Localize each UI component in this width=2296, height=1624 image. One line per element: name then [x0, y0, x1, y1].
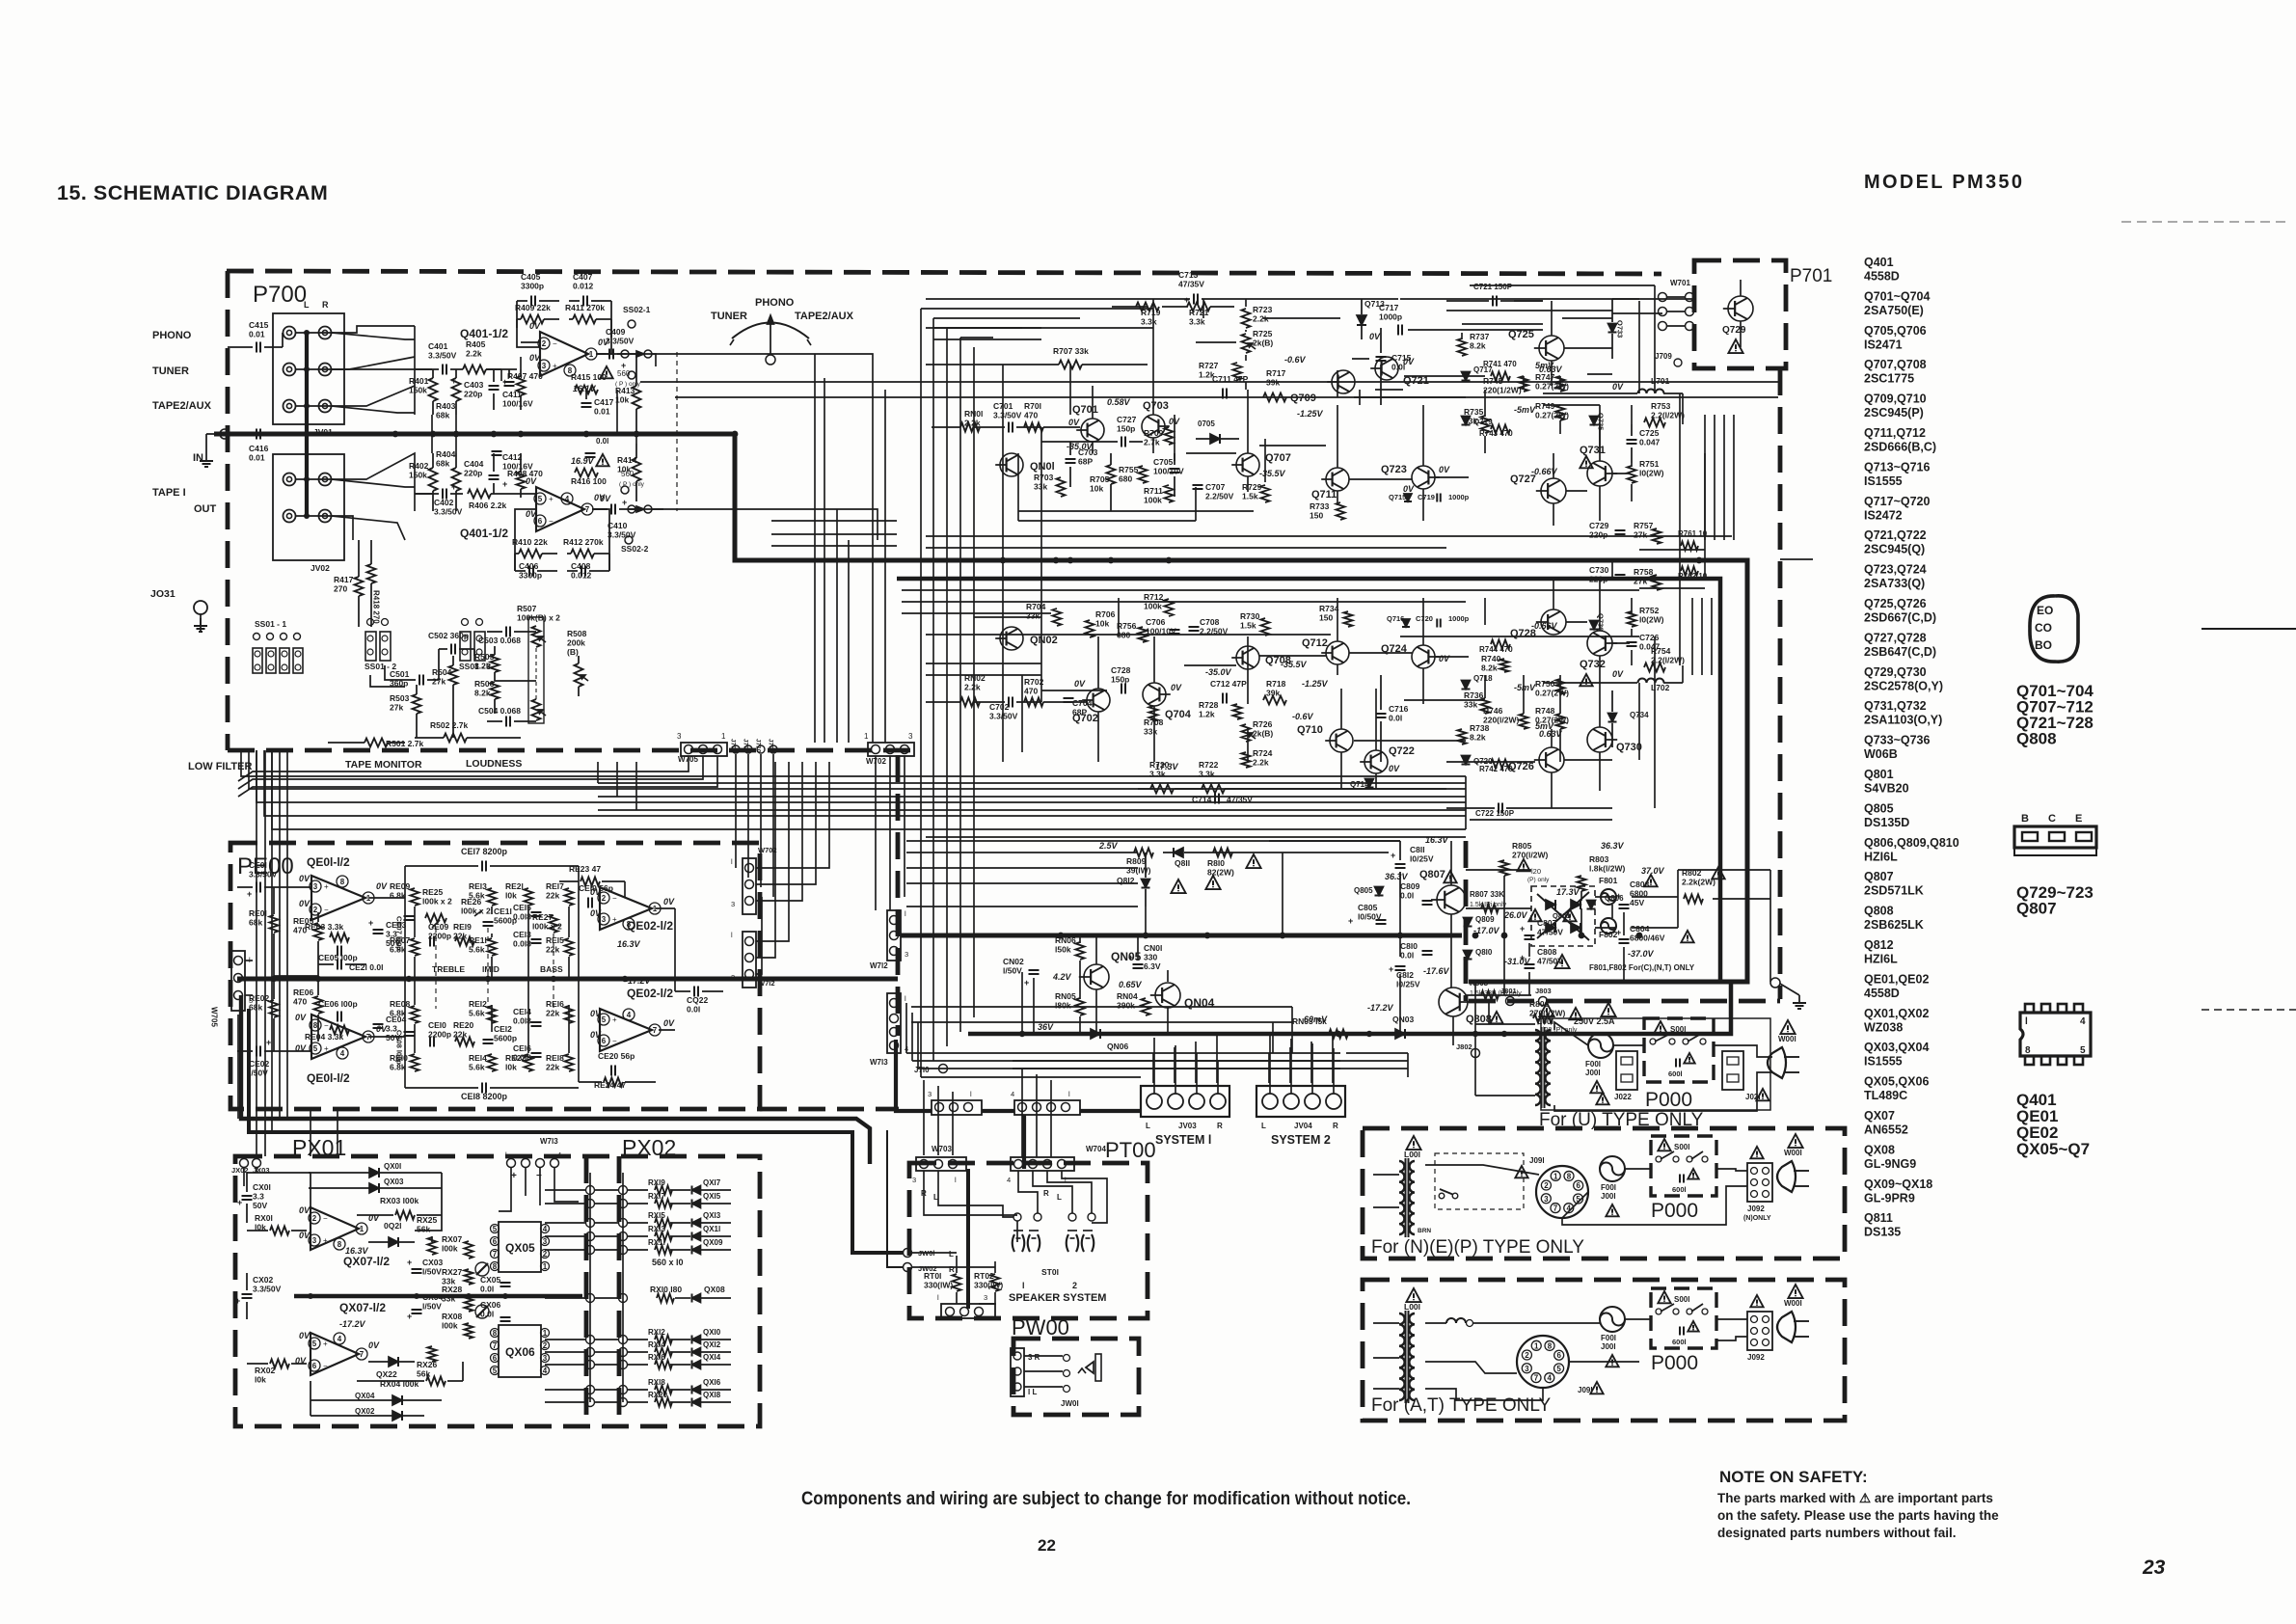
svg-text:R724: R724	[1253, 748, 1273, 758]
transistor Q707	[1231, 452, 1291, 478]
svg-text:Q717~Q720: Q717~Q720	[1864, 495, 1931, 508]
svg-text:0V: 0V	[368, 1340, 380, 1350]
svg-text:REl8: REl8	[546, 1053, 564, 1063]
svg-text:1000p: 1000p	[1448, 493, 1470, 501]
svg-text:QX03,QX04: QX03,QX04	[1864, 1041, 1929, 1054]
svg-text:8: 8	[493, 1329, 498, 1338]
svg-text:1: 1	[589, 350, 594, 359]
capacitor C704 68P	[1064, 698, 1093, 717]
svg-text:+: +	[235, 1296, 240, 1306]
resistor RE21 10k	[505, 881, 533, 906]
transistor Q727	[1510, 467, 1566, 503]
svg-text:RE1l: RE1l	[469, 935, 487, 945]
resistor R701 470	[1024, 401, 1080, 432]
svg-text:2: 2	[312, 1214, 317, 1223]
svg-text:7: 7	[360, 1350, 365, 1359]
wire thick connector row link	[896, 1040, 1141, 1169]
svg-text:TREBLE: TREBLE	[432, 964, 465, 974]
svg-text:2.5V: 2.5V	[1098, 841, 1119, 851]
svg-text:QN03: QN03	[1392, 1015, 1414, 1024]
svg-text:3: 3	[912, 1176, 916, 1184]
part list entry Q711,Q712 2SD666(B,C)	[1864, 426, 1936, 454]
svg-text:6: 6	[493, 1354, 498, 1363]
capacitor C401 3.3/50V	[415, 341, 463, 386]
resistor RE11 5.6k	[469, 935, 497, 956]
resistor R719 3.3k	[1136, 303, 1161, 327]
resistor R704 33k	[1026, 602, 1062, 626]
capacitor C411 100/16V	[502, 369, 533, 409]
svg-text:C725: C725	[1639, 428, 1660, 438]
pcb block For A T dashed border	[1363, 1280, 1845, 1421]
svg-text:PHONO: PHONO	[755, 297, 795, 309]
connector mid row right 4pin	[1011, 1090, 1080, 1115]
transistor QN01	[995, 453, 1054, 476]
capacitor C809 0.01	[1400, 881, 1433, 905]
svg-text:-31.0V: -31.0V	[1504, 957, 1531, 966]
transformer L001 AT type	[1399, 1288, 1421, 1403]
resistor RE18 22k	[546, 1053, 574, 1072]
resistor R717 39k	[1263, 368, 1286, 402]
resistor R802 2.2k(2W)	[1682, 867, 1725, 904]
svg-text:+: +	[612, 915, 617, 924]
capacitor CE08 100p	[395, 1030, 415, 1065]
svg-text:QXl3: QXl3	[703, 1211, 721, 1220]
svg-text:3: 3	[1544, 1195, 1549, 1204]
svg-text:C712 47P: C712 47P	[1210, 679, 1247, 689]
svg-text:For (U) TYPE ONLY: For (U) TYPE ONLY	[1539, 1110, 1704, 1130]
part group list Q401 column	[2016, 1091, 2090, 1158]
svg-text:-0.6V: -0.6V	[1284, 355, 1307, 365]
svg-text:l0(2W): l0(2W)	[1639, 469, 1664, 478]
dashed gang lines tone pots	[436, 928, 554, 1009]
svg-text:5: 5	[1556, 1365, 1561, 1373]
resistor RT02 330(1W)	[974, 1271, 1003, 1291]
capacitor C730 220p resistor R758 27k	[1589, 565, 1708, 590]
svg-text:Q703: Q703	[1143, 400, 1169, 412]
capacitor CE13 0.018	[513, 930, 542, 949]
svg-text:6.3V: 6.3V	[1144, 961, 1161, 971]
svg-text:W06B: W06B	[1864, 747, 1898, 761]
resistor RX07 100k	[442, 1234, 473, 1259]
svg-text:33k: 33k	[1026, 611, 1040, 621]
svg-text:C808: C808	[1537, 947, 1557, 957]
svg-text:QX22: QX22	[376, 1369, 397, 1379]
resistor R750 0.27(2W)	[1514, 679, 1569, 698]
capacitor C701 3.3/50V	[974, 401, 1041, 433]
svg-text:−: −	[612, 1037, 617, 1045]
wire loudness network	[370, 632, 536, 738]
svg-text:5.6k: 5.6k	[469, 1063, 485, 1072]
pcb block PT00 dashed border	[909, 1163, 1148, 1318]
wire pe00 to amp links	[756, 762, 829, 974]
svg-text:C410: C410	[608, 521, 628, 530]
capacitor C418 0.01 and 16.9V	[571, 437, 609, 466]
svg-text:390k: 390k	[1117, 1001, 1135, 1011]
resistor RN01 2.2k	[960, 409, 983, 432]
svg-text:0V: 0V	[1074, 679, 1086, 689]
svg-text:TAPE I: TAPE I	[152, 487, 186, 499]
diode Q734	[1608, 690, 1650, 747]
jack JW01 L	[904, 1249, 955, 1259]
svg-text:QN02: QN02	[1030, 635, 1058, 646]
resistor R724 2.2k	[1242, 748, 1273, 768]
transistor Q723	[1381, 464, 1450, 494]
svg-text:C407: C407	[573, 272, 593, 282]
svg-text:0V: 0V	[295, 1013, 307, 1022]
svg-text:6: 6	[1576, 1181, 1580, 1190]
svg-text:2200p: 2200p	[428, 932, 451, 941]
svg-text:27k: 27k	[1634, 530, 1647, 540]
label speaker system	[1009, 1281, 1106, 1304]
svg-text:W705: W705	[210, 1007, 219, 1027]
svg-text:F801: F801	[1599, 876, 1618, 885]
capacitor C804 6800/46V	[1616, 924, 1694, 959]
svg-text:16.9V: 16.9V	[571, 456, 595, 466]
svg-text:220(l/2W): 220(l/2W)	[1483, 716, 1519, 725]
resistor R708 33k lower	[1144, 706, 1179, 771]
svg-text:R728: R728	[1199, 700, 1219, 710]
bridge rectifier Q801	[1531, 886, 1595, 946]
svg-text:3: 3	[543, 1237, 548, 1246]
wire px inputs	[244, 1109, 579, 1211]
ground main right	[1770, 978, 1806, 1009]
svg-text:J709: J709	[1655, 352, 1672, 361]
svg-text:+: +	[549, 495, 554, 503]
svg-text:1000p: 1000p	[1379, 312, 1402, 322]
svg-text:8: 8	[1567, 1172, 1572, 1180]
resistor R703 33k	[1034, 473, 1066, 497]
svg-text:1.2k: 1.2k	[1199, 710, 1215, 719]
svg-text:QE0l-l/2: QE0l-l/2	[307, 855, 350, 869]
resistor RE24 47	[579, 1078, 656, 1091]
resistor R808 1.5k 33k	[1470, 979, 1522, 1000]
svg-text:R508: R508	[567, 629, 587, 638]
svg-text:RXl0 l80: RXl0 l80	[650, 1285, 682, 1294]
svg-text:3.3k: 3.3k	[1199, 770, 1215, 779]
resistor RE05 470	[293, 912, 323, 976]
svg-text:2SC2578(O,Y): 2SC2578(O,Y)	[1864, 679, 1943, 692]
capacitor C717 1000p	[1369, 303, 1402, 341]
wire right output stage mesh	[1446, 285, 1705, 820]
svg-text:3300p: 3300p	[521, 282, 544, 291]
svg-text:0V: 0V	[590, 887, 602, 897]
wire psu horizontals	[906, 841, 1770, 995]
fuse F001 NEP	[1600, 1156, 1625, 1216]
wire misc right column	[1780, 558, 1813, 560]
svg-text:Q731,Q732: Q731,Q732	[1864, 699, 1927, 713]
transistor Q708	[1205, 646, 1291, 677]
svg-text:0.0l: 0.0l	[480, 1310, 494, 1319]
resistor R707 33k	[1003, 346, 1148, 369]
svg-text:26.0V: 26.0V	[1503, 910, 1528, 920]
svg-text:Q718: Q718	[1473, 674, 1493, 683]
svg-text:2SC1775: 2SC1775	[1864, 372, 1914, 386]
svg-text:68P: 68P	[1078, 457, 1093, 467]
svg-text:6800/46V: 6800/46V	[1630, 934, 1665, 943]
svg-text:RX25: RX25	[417, 1215, 438, 1225]
svg-text:2: 2	[313, 906, 318, 914]
svg-text:R402: R402	[409, 461, 429, 471]
svg-text:(N)ONLY: (N)ONLY	[1743, 1215, 1771, 1222]
svg-text:1.5k IPi only: 1.5k IPi only	[1470, 902, 1507, 908]
svg-text:7: 7	[1534, 1374, 1539, 1383]
resistor R734 150	[1319, 604, 1353, 627]
svg-text:R809: R809	[1126, 856, 1147, 866]
svg-text:C415: C415	[249, 320, 269, 330]
svg-text:QX05: QX05	[505, 1241, 535, 1255]
transistor Q711	[1311, 468, 1349, 501]
capacitor CE01 3.3/50V	[237, 860, 289, 899]
part list entry Q733~Q736 W06B	[1864, 734, 1931, 762]
IC QX06	[491, 1325, 550, 1377]
svg-text:R504: R504	[432, 667, 452, 677]
capacitor CE05 100p	[318, 946, 358, 963]
svg-text:CE0l: CE0l	[249, 860, 267, 870]
wire px02 rows horizontals	[545, 1190, 618, 1402]
wire midband horizontals	[675, 390, 1778, 837]
svg-text:R709: R709	[1144, 428, 1164, 438]
svg-text:RE2l: RE2l	[505, 881, 524, 891]
svg-text:+: +	[622, 498, 627, 507]
pcb block For N E P dashed border	[1363, 1128, 1845, 1259]
wire bundle under P700	[241, 750, 1466, 829]
capacitor C721 150P	[1446, 283, 1543, 307]
plug W001 U type	[1768, 1020, 1799, 1078]
svg-text:C412: C412	[502, 452, 523, 462]
svg-text:Q723: Q723	[1381, 464, 1407, 475]
svg-text:3: 3	[928, 1090, 932, 1098]
svg-text:1: 1	[721, 732, 726, 741]
svg-text:22k: 22k	[453, 1030, 467, 1040]
svg-text:3: 3	[677, 732, 682, 741]
svg-text:0.01: 0.01	[249, 453, 265, 463]
resistor R806 270(1/2W)	[1529, 999, 1582, 1034]
svg-text:150: 150	[1310, 511, 1323, 521]
svg-text:Q727,Q728: Q727,Q728	[1864, 631, 1927, 644]
svg-text:4: 4	[340, 1049, 345, 1058]
capacitor C501 360p	[390, 669, 439, 689]
svg-text:R745: R745	[1483, 376, 1503, 386]
svg-text:R502 2.7k: R502 2.7k	[430, 720, 468, 730]
main signal bus thick	[214, 434, 1747, 982]
svg-text:SS02-1: SS02-1	[623, 305, 651, 314]
svg-text:l0k: l0k	[255, 1375, 266, 1385]
svg-text:4: 4	[1007, 1176, 1011, 1184]
capacitor CX06 0.01	[480, 1300, 511, 1321]
svg-text:RN03 l5k: RN03 l5k	[1292, 1016, 1327, 1026]
resistor RX28 33k	[442, 1285, 489, 1318]
svg-text:2SD571LK: 2SD571LK	[1864, 884, 1924, 898]
svg-text:Q723,Q724: Q723,Q724	[1864, 563, 1927, 577]
page edge mark top right	[2121, 221, 2290, 223]
capacitor C416 0.01	[206, 429, 347, 463]
svg-text:17.3V: 17.3V	[1556, 887, 1580, 897]
svg-text:47/35V: 47/35V	[1178, 280, 1204, 289]
svg-text:Q709: Q709	[1290, 392, 1316, 404]
svg-text:Q732: Q732	[1580, 659, 1606, 670]
resistor RE03 3.3k	[305, 922, 349, 942]
wire left column px connects	[238, 750, 280, 1156]
svg-text:R8l0: R8l0	[1207, 858, 1225, 868]
capacitor CE16 0.018	[513, 1043, 542, 1063]
resistor R712 100k	[1144, 592, 1174, 616]
resistor RN05 180k	[1055, 991, 1085, 1015]
svg-text:+: +	[553, 362, 557, 370]
pcb block PX01 PX02 dashed border	[235, 1156, 760, 1426]
svg-text:CE09: CE09	[428, 922, 449, 932]
transistor Q703	[1142, 400, 1180, 438]
svg-text:R729: R729	[1242, 482, 1262, 492]
svg-text:3.3/50V: 3.3/50V	[428, 351, 457, 361]
svg-text:RX28: RX28	[442, 1285, 463, 1294]
wire feedback loop lower opamp	[515, 509, 536, 571]
svg-text:R740: R740	[1481, 654, 1501, 663]
diode Q806	[1587, 894, 1625, 909]
transistor Q724	[1381, 643, 1450, 668]
svg-text:BASS: BASS	[540, 964, 563, 974]
wire ground bus jacks	[305, 331, 309, 517]
svg-text:NOTE ON SAFETY:: NOTE ON SAFETY:	[1719, 1468, 1868, 1486]
resistor R412 270k	[563, 537, 609, 558]
component J021	[1722, 1051, 1769, 1101]
svg-text:37.0V: 37.0V	[1641, 866, 1665, 876]
op-amp QE01-1/2 upper	[299, 855, 388, 920]
svg-text:S00l: S00l	[1674, 1143, 1689, 1151]
svg-text:7: 7	[585, 505, 590, 514]
svg-text:2.2k: 2.2k	[1253, 758, 1269, 768]
diode Q809 and voltages	[1464, 909, 1542, 935]
svg-text:R726: R726	[1253, 719, 1273, 729]
capacitor C708 2.2/50V	[1189, 617, 1229, 636]
svg-text:2.7k: 2.7k	[1144, 438, 1160, 447]
svg-text:8.2k: 8.2k	[474, 689, 491, 698]
svg-text:J7l0: J7l0	[914, 1066, 930, 1074]
svg-text:−: −	[549, 517, 554, 526]
resistor RE19 22k	[453, 922, 474, 946]
potentiometer RE26 100kx2	[461, 897, 491, 916]
resistor R743 470	[1479, 425, 1513, 439]
svg-text:RX08: RX08	[442, 1312, 463, 1321]
svg-text:QX07-l/2: QX07-l/2	[339, 1301, 386, 1314]
svg-text:0V: 0V	[368, 1213, 380, 1223]
svg-text:-17.2V: -17.2V	[1367, 1003, 1394, 1013]
svg-text:WZ038: WZ038	[1864, 1020, 1903, 1034]
svg-text:Q729: Q729	[1722, 325, 1746, 336]
svg-text:l0k: l0k	[505, 1063, 517, 1072]
wires U type section	[1475, 1022, 1772, 1111]
svg-text:For (N)(E)(P) TYPE ONLY: For (N)(E)(P) TYPE ONLY	[1371, 1237, 1584, 1258]
svg-text:IS2471: IS2471	[1864, 338, 1903, 351]
svg-text:+: +	[237, 1198, 242, 1207]
svg-text:Q711,Q712: Q711,Q712	[1864, 426, 1926, 440]
resistor R747 0.27(2W)	[1535, 372, 1569, 392]
svg-text:Q711: Q711	[1311, 489, 1337, 501]
svg-text:−: −	[612, 894, 617, 903]
svg-text:R746: R746	[1483, 706, 1503, 716]
svg-text:4: 4	[543, 1367, 548, 1375]
svg-text:0V: 0V	[1068, 418, 1080, 427]
svg-text:QN04: QN04	[1184, 996, 1215, 1010]
svg-text:0V: 0V	[663, 897, 675, 907]
resistor R745 220(1/2W)	[1483, 361, 1554, 395]
svg-text:R707 33k: R707 33k	[1053, 346, 1089, 356]
svg-text:7: 7	[1553, 1204, 1558, 1213]
resistor R404 68k	[436, 449, 461, 511]
svg-text:+: +	[1616, 928, 1621, 937]
svg-text:RX02: RX02	[255, 1366, 276, 1375]
svg-text:2: 2	[1072, 1281, 1077, 1290]
svg-text:RE0l: RE0l	[249, 908, 267, 918]
capacitor C812 10/25V	[1389, 964, 1450, 989]
resistor RE02 68k	[249, 976, 279, 1051]
svg-text:Q701~Q704: Q701~Q704	[1864, 289, 1931, 303]
svg-text:Q704: Q704	[1165, 709, 1192, 720]
svg-text:J802: J802	[1456, 1042, 1472, 1051]
potentiometer R508 200k(B)	[567, 629, 588, 696]
svg-text:on the safety. Please use: on the safety. Please use the parts havi…	[1717, 1508, 1999, 1523]
svg-text:GL-9PR9: GL-9PR9	[1864, 1191, 1915, 1204]
svg-text:0.01: 0.01	[594, 407, 610, 417]
svg-text:39(lW): 39(lW)	[1126, 866, 1151, 876]
svg-text:3: 3	[313, 882, 318, 891]
svg-text:IS1555: IS1555	[1864, 1055, 1903, 1069]
resistor RE15 22k	[546, 935, 574, 956]
svg-text:600l: 600l	[1668, 1069, 1683, 1078]
svg-text:0V: 0V	[376, 881, 388, 891]
wire bundle inputs to opamps	[296, 326, 663, 540]
capacitor C403 220p	[464, 369, 507, 410]
svg-text:6: 6	[1556, 1351, 1561, 1360]
resistor R737 8.2k	[1458, 332, 1490, 356]
resistor R413 10k	[615, 354, 641, 434]
svg-text:ST0l: ST0l	[1041, 1267, 1059, 1277]
svg-text:56k: 56k	[417, 1225, 430, 1234]
svg-text:23: 23	[2142, 1556, 2166, 1579]
transistor Q808 pnp	[1439, 957, 1531, 1025]
part list entry Q713~Q716 IS1555	[1864, 460, 1931, 488]
svg-text:C503 0.068: C503 0.068	[478, 636, 521, 645]
capacitor CX05 0.01	[480, 1275, 511, 1294]
resistor RX25 56k	[417, 1215, 438, 1255]
junction J801 J803 circles	[1500, 987, 1552, 1006]
capacitor C503 0.068	[478, 627, 528, 646]
resistor RE12 5.6k	[469, 999, 497, 1023]
svg-text:10k: 10k	[1090, 484, 1103, 494]
connector W704	[1007, 1145, 1106, 1202]
svg-text:C729: C729	[1589, 521, 1609, 530]
lower psu bus thick	[968, 984, 1731, 1034]
svg-text:R706: R706	[1095, 609, 1116, 619]
transistor QN05	[1052, 950, 1143, 989]
svg-text:4: 4	[2080, 1016, 2086, 1027]
resistor R506 8.2k	[474, 679, 500, 714]
svg-text:4: 4	[627, 1011, 632, 1019]
potentiometer R507 100k(B)x2	[517, 604, 560, 723]
svg-text:2SB647(C,D): 2SB647(C,D)	[1864, 645, 1936, 659]
svg-text:C8ll: C8ll	[1410, 845, 1425, 854]
svg-text:+: +	[451, 482, 456, 492]
capacitor C728 150p	[1111, 665, 1131, 694]
part list entry Q812 HZI6L	[1864, 938, 1898, 966]
connector W702 W712 pe00 right side	[731, 846, 777, 988]
svg-text:1: 1	[543, 1329, 548, 1338]
svg-text:2.2k(2W): 2.2k(2W)	[1682, 878, 1715, 887]
svg-text:+: +	[1520, 924, 1525, 934]
svg-text:JV03: JV03	[1178, 1122, 1197, 1130]
svg-text:5: 5	[312, 1340, 317, 1348]
svg-text:QX05,QX06: QX05,QX06	[1864, 1075, 1929, 1089]
svg-text:4: 4	[1548, 1374, 1553, 1383]
